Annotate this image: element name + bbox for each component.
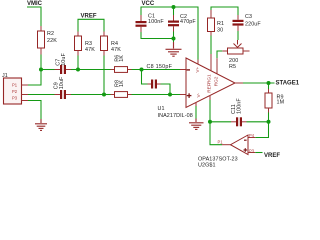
pin lead plus input — [180, 94, 186, 96]
svg-text:VREF: VREF — [81, 13, 97, 19]
svg-text:P1: P1 — [218, 140, 224, 145]
ground VCC filter — [166, 42, 182, 56]
resistor R2 — [38, 26, 58, 55]
svg-text:470pF: 470pF — [180, 19, 196, 25]
svg-text:R5: R5 — [229, 64, 236, 70]
wire row2 to R8 — [104, 94, 111, 96]
resistor R4 — [101, 32, 122, 56]
svg-text:INA217DIL-08: INA217DIL-08 — [158, 113, 193, 119]
svg-text:REF: REF — [206, 83, 211, 93]
wire feedback to P4 — [255, 122, 268, 138]
svg-text:P3: P3 — [249, 148, 255, 153]
pin RG2 — [216, 58, 218, 74]
wire REF to servo node — [209, 100, 211, 122]
wire V- to ground — [195, 106, 197, 119]
svg-text:P3: P3 — [12, 96, 18, 101]
svg-text:47K: 47K — [111, 47, 121, 53]
ground U1 — [189, 119, 204, 130]
svg-text:1K: 1K — [119, 80, 125, 87]
wire VREF bridge — [78, 19, 104, 31]
node junction R4/row2 — [102, 93, 106, 97]
wire C2 bottom — [173, 32, 175, 43]
capacitor C11 — [231, 98, 247, 127]
wire P1 to VMIC node — [28, 70, 41, 86]
svg-text:V+: V+ — [195, 66, 200, 72]
svg-text:C3: C3 — [245, 14, 252, 20]
ground J1 — [35, 119, 47, 130]
svg-text:P2: P2 — [12, 89, 18, 94]
wire P3 to ground — [28, 101, 41, 120]
resistor R3 — [75, 32, 96, 56]
svg-text:100nF: 100nF — [148, 19, 164, 25]
svg-text:P1: P1 — [12, 83, 18, 88]
wire servo node to C11 — [210, 121, 231, 123]
svg-text:100nF: 100nF — [236, 98, 242, 114]
wire P1 to REF node — [210, 122, 222, 145]
net VMIC label — [27, 1, 43, 26]
svg-text:22K: 22K — [47, 38, 57, 44]
capacitor C7 — [55, 53, 72, 74]
net VCC label — [141, 1, 198, 60]
net VREF label top — [78, 13, 104, 31]
svg-text:R1: R1 — [217, 21, 224, 27]
svg-text:RG2: RG2 — [214, 76, 219, 86]
capacitor C1 — [136, 13, 165, 32]
node junction C8 top — [140, 68, 144, 72]
node junction gnd/C2 — [172, 37, 176, 41]
svg-text:P4: P4 — [249, 133, 255, 138]
node junction servo right — [267, 120, 271, 124]
wire C11 to R9 node — [247, 121, 269, 123]
capacitor C9 — [53, 76, 71, 99]
wire R2 to row1 — [40, 55, 42, 70]
wire C7 to R3 node — [71, 69, 78, 71]
wire C3 to wiper — [237, 31, 239, 40]
node junction VCC/C2 — [172, 5, 176, 9]
svg-text:R2: R2 — [47, 31, 54, 37]
wire R5 to RG2 — [217, 51, 222, 58]
node junction R3/row1 — [76, 68, 80, 72]
capacitor C2 — [168, 14, 196, 32]
wire R1 top rail to C3 — [211, 7, 238, 15]
capacitor C8 — [142, 64, 173, 95]
node junction servo left — [208, 120, 212, 124]
wire output to STAGE1 — [243, 82, 275, 84]
connector J1 — [2, 73, 28, 104]
pin RG1 — [210, 54, 212, 71]
svg-text:10uF: 10uF — [59, 76, 65, 89]
wire R6 to minus input — [132, 69, 181, 71]
node junction row1/VMIC — [39, 68, 43, 72]
svg-text:U1: U1 — [158, 106, 165, 112]
wire R8 to plus input — [132, 94, 181, 96]
svg-text:STAGE1: STAGE1 — [276, 80, 300, 86]
wire P2 to C9 — [28, 94, 55, 96]
svg-text:VMIC: VMIC — [27, 1, 43, 7]
wire VMIC stub — [27, 7, 41, 26]
pin V+ — [197, 60, 199, 65]
svg-text:C8 150pF: C8 150pF — [147, 64, 173, 70]
trimmer R5 — [222, 40, 249, 70]
node junction STAGE1/R9 — [267, 81, 271, 85]
wire row1 to C7 — [41, 69, 55, 71]
node junction C8 bottom — [168, 93, 172, 97]
wire R4 to row2 — [103, 56, 105, 95]
resistor R6 — [111, 55, 132, 73]
svg-text:U2G$1: U2G$1 — [198, 163, 216, 169]
resistor R8 — [111, 80, 132, 97]
svg-text:220uF: 220uF — [245, 22, 261, 28]
resistor R9 — [265, 83, 285, 113]
pin output U1 — [235, 82, 243, 84]
svg-text:V-: V- — [196, 93, 201, 98]
svg-text:1K: 1K — [119, 55, 125, 62]
svg-text:RG1: RG1 — [206, 74, 211, 84]
pin lead minus input — [180, 69, 186, 71]
pin P3 — [248, 148, 255, 153]
svg-text:47K: 47K — [85, 47, 95, 53]
svg-text:30: 30 — [217, 28, 223, 34]
pin V- — [195, 103, 197, 107]
capacitor C3 — [233, 14, 262, 31]
wire row1 R3 to R6 — [78, 69, 111, 71]
svg-text:VREF: VREF — [264, 153, 280, 159]
pin REF — [209, 95, 211, 100]
wire P3 stub — [255, 152, 262, 154]
wire R1 to RG1 — [210, 36, 212, 55]
op-amp U2 — [198, 135, 248, 169]
resistor R1 — [208, 10, 225, 36]
pin P1 output U2 — [218, 140, 231, 145]
wire VCC rail — [141, 7, 198, 60]
svg-text:VCC: VCC — [142, 1, 155, 7]
op-amp U1 — [158, 58, 236, 119]
wire R9 to servo node — [268, 113, 270, 122]
svg-text:1M: 1M — [277, 100, 285, 106]
svg-text:10uF: 10uF — [61, 53, 67, 66]
wire C9 to R4 node — [71, 94, 104, 96]
pin P4 — [248, 133, 255, 138]
wire C2 top — [173, 7, 175, 15]
wire C1 to gnd node — [141, 32, 174, 39]
wire R3 to row1 — [77, 56, 79, 70]
